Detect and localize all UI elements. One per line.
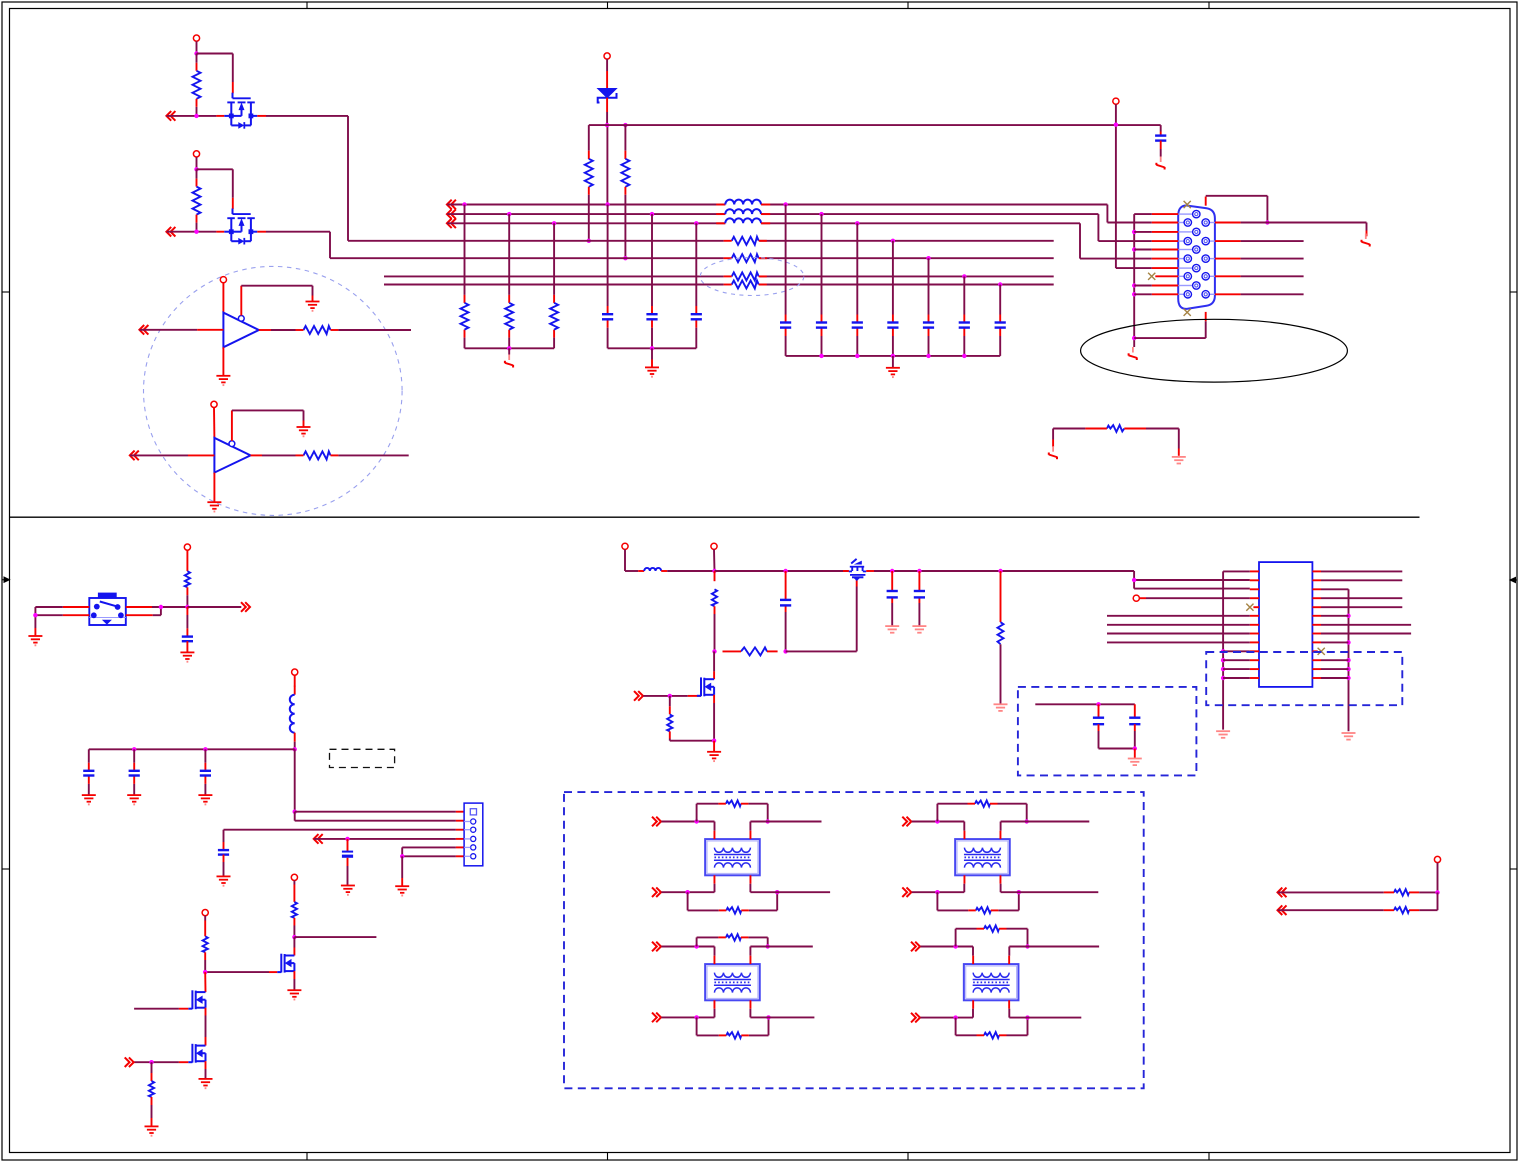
wire T3 pin stubs bottom — [715, 1009, 751, 1018]
wire R13 vertical — [553, 223, 555, 348]
wire U2B below-triangle ground lead — [213, 473, 215, 502]
pin U1 left row4 — [1250, 597, 1259, 599]
wire FB to Q7 gate — [786, 580, 857, 652]
resistor R17 — [203, 936, 208, 972]
junction U1 right gnd bus — [1346, 676, 1350, 680]
junction R12 top — [507, 212, 511, 216]
connector J1 pin mid row1 — [1152, 210, 1200, 217]
wire T2 bottom loop — [937, 892, 1018, 910]
wire AGND rail resistors — [465, 347, 555, 349]
wire J2 row2 — [295, 812, 464, 821]
pin U1 left row8 — [1250, 633, 1259, 635]
power pin VCC Q3 — [291, 874, 297, 880]
wire R21 top — [1000, 571, 1002, 622]
pin U1 right row5 — [1312, 606, 1321, 608]
junction J1 right row1 — [1265, 220, 1269, 224]
iso ground J1 bus — [1129, 347, 1137, 360]
junction R21 — [998, 569, 1002, 573]
capacitor C10 — [995, 323, 1006, 328]
wire SW1 left pins — [35, 607, 89, 635]
dashed box U1 lower pins — [1206, 652, 1402, 705]
capacitor C15 — [200, 771, 211, 776]
wire Q2 input — [167, 231, 225, 233]
ground caps box — [1128, 759, 1142, 766]
wire U2B enable loop — [232, 410, 304, 440]
connector J1 pin right row1 — [1202, 219, 1241, 226]
junction C1 top — [605, 202, 609, 206]
resistor T1 top termination — [718, 801, 748, 807]
ground U1 right bus — [1342, 733, 1356, 740]
junction GND rail cap — [891, 354, 895, 358]
wire J2 row6 — [402, 855, 464, 857]
ground C15 — [198, 795, 212, 804]
capacitor C13 — [83, 771, 94, 776]
resistor R1 pullup — [193, 54, 201, 116]
wire J1 right row ext — [1241, 293, 1304, 295]
wire C5 vertical — [821, 214, 823, 356]
wire bus line6 — [384, 275, 1054, 277]
resistor R23 term A — [1384, 889, 1438, 895]
junction SW1 out b — [185, 605, 189, 609]
wire J1 right row ext — [1241, 275, 1304, 277]
zone arrow left border — [2, 577, 10, 582]
transistor Q3 N-MOSFET — [277, 954, 294, 973]
junction C17 top — [345, 837, 349, 841]
no-connect X U1 left — [1246, 604, 1253, 611]
wire bus line2 — [447, 214, 1152, 241]
capacitor C16 — [218, 850, 229, 876]
wire J1 ground bus branch — [1134, 231, 1152, 233]
ground R14 — [1172, 457, 1186, 464]
junction C9 top — [962, 274, 966, 278]
connector J1 pin mid row2 — [1152, 228, 1200, 235]
wire J1 shell ground — [1134, 312, 1206, 338]
resistor T4 top termination — [977, 926, 1007, 932]
resistor R9 line6 — [724, 272, 767, 280]
junction T3 bottom right — [766, 1015, 770, 1019]
wire Q3 drain pullup top — [293, 881, 295, 902]
resistor R12 to AGND — [505, 303, 513, 330]
wire bus line7 — [384, 284, 1054, 286]
wire term row B — [1278, 909, 1384, 911]
iso ground R14 — [1049, 446, 1057, 459]
wire AGND stub — [508, 348, 510, 354]
wire D1 cathode to junction — [606, 98, 608, 125]
wire Q5 gate row — [134, 1061, 188, 1063]
junction GND rail cap — [926, 354, 930, 358]
wire U1 right row7 — [1321, 624, 1411, 626]
pin U1 right row4 — [1312, 597, 1321, 599]
capacitor C5 — [816, 323, 827, 328]
wire T1 bottom row — [661, 891, 714, 893]
zone arrow right border — [1510, 577, 1517, 582]
wire C9 vertical — [963, 276, 965, 356]
inductor FB1 line1 — [716, 200, 770, 205]
wire Q6 gate row — [634, 695, 701, 697]
capacitor C14 — [129, 771, 140, 776]
input port arrow term A — [1278, 888, 1287, 898]
ground C12 — [180, 652, 194, 661]
dashed box magnetics — [564, 792, 1144, 1088]
junction U1 right gnd bus — [1346, 640, 1350, 644]
input port arrow Q1 — [166, 111, 175, 121]
inductor L1 — [290, 675, 295, 742]
power pin VCC D1 — [604, 53, 610, 59]
junction T2 top left — [935, 819, 939, 823]
wire T1 top row — [661, 821, 714, 823]
junction GND rail cap — [819, 354, 823, 358]
pin U1 left row1 — [1250, 570, 1259, 572]
junction caps gnd — [1133, 746, 1137, 750]
connector J1 pin left row3 — [1152, 255, 1192, 262]
wire C3 vertical — [695, 223, 697, 348]
ellipse annotation around J1 bottom — [1081, 319, 1348, 382]
wire U2B output net — [338, 454, 408, 456]
ground U2B — [207, 502, 221, 511]
ground C19 — [885, 626, 899, 633]
resistor R20 feedback — [723, 647, 778, 655]
ground R18 — [145, 1126, 159, 1135]
no-connect X J1 shell bottom — [1184, 309, 1191, 316]
wire Q5 source — [205, 1061, 207, 1078]
wire GND stub C7 — [892, 356, 894, 367]
op-amp U2A buffer triangle — [223, 313, 258, 348]
wire T3 bottom loop — [697, 1017, 769, 1035]
wire U1 right gnd branch — [1321, 668, 1349, 670]
transistor Q7 pass P-MOSFET — [849, 559, 866, 581]
wire T2 top loop — [937, 804, 1026, 822]
wire top distribution right end — [1160, 125, 1162, 135]
wire T1 pin stubs bottom — [715, 884, 751, 893]
ground Q5 — [199, 1079, 213, 1088]
resistor R15 pullup — [185, 571, 190, 607]
pin U1 left row9 — [1250, 641, 1259, 643]
wire T2 pin stubs bottom — [964, 884, 1000, 893]
wire T4 pin stubs bottom — [973, 1009, 1009, 1018]
wire Q1 power stub — [196, 41, 198, 53]
resistor R11 to AGND — [461, 303, 469, 330]
capacitor C11 — [1155, 136, 1166, 157]
wire U2A below-triangle ground lead — [222, 347, 224, 375]
resistor T2 bottom termination — [968, 907, 998, 913]
IC U1 body — [1259, 562, 1312, 687]
wire Q3 gate row — [205, 971, 277, 973]
pin U1 right row8 — [1312, 633, 1321, 635]
wire C10 vertical — [999, 285, 1001, 356]
junction GND rail cap — [962, 354, 966, 358]
wire C19 vertical — [891, 571, 893, 626]
connector J1 pin right row2 — [1202, 237, 1241, 244]
wire GND rail caps C4-C10 — [786, 355, 1001, 357]
inductor FB2 line2 — [716, 209, 770, 214]
junction C4 top — [783, 202, 787, 206]
resistor R18 — [149, 1081, 154, 1126]
wire Q6 source — [713, 695, 715, 741]
wire U1 left gnd branch — [1223, 668, 1250, 670]
wire T1 top loop — [697, 804, 768, 822]
resistor R14 — [1085, 425, 1146, 432]
junction term A — [1435, 890, 1439, 894]
resistor T3 top termination — [718, 934, 748, 940]
wire R22 stub — [669, 696, 671, 714]
junction C21 top — [1096, 702, 1100, 706]
connector J1 pin mid row4 — [1152, 264, 1200, 271]
junction R6 line5 — [623, 256, 627, 260]
wire C13 stub — [88, 749, 90, 794]
power pin VCC SW1 — [184, 544, 190, 550]
wire SW1 pullup top — [186, 550, 188, 571]
wire SW1 debounce cap stub — [186, 607, 188, 636]
capacitor C18 — [780, 600, 791, 606]
transistor Q5 N-MOSFET — [188, 1044, 205, 1063]
junction C10 top — [998, 282, 1002, 286]
resistor R8 line5 — [724, 254, 767, 262]
diode D1 zener — [598, 89, 617, 103]
input port arrow T3 TX- — [652, 1013, 661, 1023]
wire T3 pin stubs top — [715, 947, 751, 956]
pin U1 right row13 — [1312, 677, 1321, 679]
wire C14 stub — [133, 749, 135, 794]
ground J2 — [395, 886, 409, 895]
input port arrow T1 TX- — [652, 887, 661, 897]
junction J2 gnd rows — [400, 854, 404, 858]
input port arrow T1 TX+ — [652, 817, 661, 827]
power pin VCC L1 — [292, 669, 298, 675]
junction C5 top — [819, 212, 823, 216]
junction T2 bottom left — [935, 890, 939, 894]
pin U1 right row2 — [1312, 579, 1321, 581]
junction T4 top right — [1025, 944, 1029, 948]
junction GND rail C2 — [650, 346, 654, 350]
ground Q6 — [707, 752, 721, 761]
capacitor C21 — [1093, 718, 1104, 749]
ground U2B enable — [297, 427, 311, 436]
ground C20 — [912, 626, 926, 633]
junction C20 — [917, 569, 921, 573]
transistor Q4 N-MOSFET — [188, 990, 205, 1009]
wire Q1 drain to video bus line4 — [266, 116, 348, 241]
capacitor C6 — [852, 323, 863, 328]
ground C17 — [341, 886, 355, 895]
no-connect X J1 pin row4 — [1148, 273, 1155, 280]
ground U1 left bus — [1216, 731, 1230, 738]
wire term corner — [1437, 892, 1439, 910]
capacitor C17 — [342, 852, 353, 885]
input port arrow T4 TX+ — [911, 942, 920, 952]
pin U1 right row7 — [1312, 624, 1321, 626]
dashed highlight circle around buffers — [143, 266, 402, 515]
input port arrow Q5 gate — [125, 1057, 134, 1067]
capacitor C22 — [1129, 718, 1140, 749]
wire R14 right — [1146, 429, 1179, 456]
ground R21 — [994, 704, 1008, 711]
input port arrows bus RGB — [447, 200, 456, 228]
wire Q6 source gnd stub — [713, 741, 715, 752]
wire top distribution — [589, 125, 1161, 159]
pin U1 left row13 — [1250, 677, 1259, 679]
power pin VCC Q1 — [193, 35, 199, 41]
wire J1 right row ext — [1241, 258, 1304, 260]
wire bus line5 — [330, 257, 1054, 259]
dashed annotation box small — [330, 749, 395, 767]
capacitor C12 debounce — [182, 637, 193, 652]
input port arrow Q2 — [166, 227, 175, 237]
wire U2A output net — [338, 329, 411, 331]
section divider line — [10, 516, 1420, 518]
wire J2 gnd stub — [401, 856, 403, 885]
ground SW1 — [28, 636, 42, 645]
wire caps box bottom rail — [1099, 748, 1135, 750]
wire J1 ground bus branch — [1134, 285, 1152, 287]
junction T4 bottom left — [953, 1015, 957, 1019]
wire T4 bottom loop — [956, 1018, 1028, 1036]
junction J1 ground bus — [1132, 247, 1136, 251]
resistor T4 bottom termination — [977, 1032, 1007, 1038]
wire J2 row4 — [314, 838, 464, 840]
resistor R16 — [292, 902, 297, 937]
wire J2 row5 — [402, 847, 464, 856]
wire C2 vertical — [651, 214, 653, 348]
wire Q2 drain red lead — [257, 231, 266, 233]
junction T2 top right — [1025, 819, 1029, 823]
wire bus line3 — [447, 223, 1152, 258]
resistor R3 series U2A — [296, 326, 339, 334]
junction Q5 gate — [149, 1060, 153, 1064]
power pin buffer U2B — [211, 401, 217, 407]
wire Q4 source to Q5 drain — [205, 1008, 207, 1046]
resistor R22 — [667, 714, 714, 740]
pin U1 left row2 — [1250, 579, 1259, 581]
wire T3 top loop — [697, 937, 768, 946]
pin U1 right row3 — [1312, 588, 1321, 590]
iso ground AGND resistors — [505, 355, 513, 368]
junction T4 top left — [953, 944, 957, 948]
wire Q3 drain net right — [294, 936, 376, 938]
wire T4 bottom out — [1009, 1017, 1081, 1019]
wire U1 left gnd branch — [1223, 677, 1250, 679]
wire GND rail caps C1-C3 — [608, 347, 697, 349]
ground caps C1-C3 — [645, 367, 659, 376]
junction Q6 gate — [668, 694, 672, 698]
junction T1 top left — [694, 819, 698, 823]
input port arrow T4 TX- — [911, 1013, 920, 1023]
pin U1 left row11 — [1250, 659, 1259, 661]
power pin VCC term — [1434, 856, 1440, 862]
junction C7 top — [891, 239, 895, 243]
junction Q2 source — [194, 230, 198, 234]
wire U1 right row8 — [1321, 633, 1411, 635]
wire SW1 output net — [187, 606, 241, 608]
wire T1 pin stubs top — [715, 822, 751, 831]
wire C18 vertical — [785, 571, 787, 651]
wire U1 left dangling — [1107, 615, 1250, 617]
junction J1 ground bus — [1132, 283, 1136, 287]
wire Q1 input — [167, 115, 225, 117]
wire T4 bottom row — [920, 1017, 973, 1019]
resistor R13 to AGND — [550, 303, 558, 330]
wire R14 left — [1053, 429, 1085, 448]
dashed box supply caps — [1018, 687, 1197, 776]
junction U1 right gnd bus — [1346, 667, 1350, 671]
transistor Q1 P-MOSFET — [224, 93, 257, 129]
resistor T3 bottom termination — [719, 1032, 749, 1038]
wire U1 right row2 — [1321, 579, 1402, 581]
junction C14 — [132, 747, 136, 751]
junction FB mid — [783, 649, 787, 653]
iso ground C11 — [1156, 157, 1164, 170]
wire U1 left gnd branch — [1223, 650, 1250, 652]
wire D1 anode — [606, 59, 608, 88]
wire U1 right row4 — [1321, 597, 1402, 599]
wire T3 bottom row — [661, 1016, 714, 1018]
junction C6 top — [855, 221, 859, 225]
resistor R24 term B — [1384, 907, 1438, 913]
wire C7 vertical — [892, 241, 894, 356]
wire J1 ground bus branch — [1134, 293, 1152, 295]
wire U1 right gnd branch — [1321, 641, 1349, 643]
junction J2 pin1 — [293, 810, 297, 814]
junction J1 ground bus — [1132, 230, 1136, 234]
junction J1 ground bus bottom — [1132, 336, 1136, 340]
transformer T4 — [964, 956, 1019, 1009]
wire J1 right row ext — [1241, 240, 1304, 242]
junction Q3 drain net — [292, 935, 296, 939]
connector J2 header body — [464, 803, 483, 866]
power pin VCC Q2 — [193, 151, 199, 157]
wire U2B input — [130, 454, 214, 456]
wire U2B output — [251, 454, 296, 456]
pin U1 left row10 — [1250, 650, 1259, 652]
connector J1 pin left row1 — [1152, 219, 1192, 226]
connector J1 pin mid row3 — [1152, 246, 1200, 253]
transistor Q2 P-MOSFET — [224, 209, 257, 245]
wire J2 row3 — [224, 830, 465, 850]
wire Q7 source lead — [843, 570, 849, 572]
resistor T2 top termination — [968, 801, 998, 807]
wire bus line1 — [447, 205, 1152, 223]
wire U1 left gnd branch — [1223, 659, 1250, 661]
wire Q3 source — [293, 971, 295, 990]
power pin buffer U2A — [220, 277, 226, 283]
junction T3 top left — [694, 944, 698, 948]
transformer T3 — [705, 956, 760, 1009]
pin U1 left row12 — [1250, 668, 1259, 670]
power pin VIN2 — [711, 543, 717, 549]
switch SW1 tact button body — [89, 593, 126, 625]
wire Q6 drain — [713, 651, 715, 679]
resistor R10 line7 — [724, 281, 767, 289]
wire T2 pin stubs top — [964, 822, 1000, 831]
inductor L2 rail — [638, 568, 667, 571]
wire U1 right gnd bus — [1321, 589, 1349, 731]
junction T3 top right — [766, 944, 770, 948]
wire C17 stub — [347, 839, 349, 851]
capacitor C20 — [914, 591, 925, 597]
capacitor C2 — [646, 314, 657, 319]
wire VOUT rail — [874, 571, 1250, 589]
junction T3 bottom left — [694, 1015, 698, 1019]
pin U1 right row11 — [1312, 659, 1321, 661]
junction Q1 gate pullup — [194, 51, 198, 55]
wire R19 stub — [714, 571, 716, 581]
junction R13 top — [552, 221, 556, 225]
junction T1 top right — [766, 819, 770, 823]
pin U1 left row5 nc — [1253, 606, 1259, 608]
transistor Q6 N-MOSFET — [697, 677, 714, 696]
resistor R5 — [585, 159, 593, 241]
resistor T1 bottom termination — [719, 907, 749, 913]
ground C14 — [127, 795, 141, 804]
